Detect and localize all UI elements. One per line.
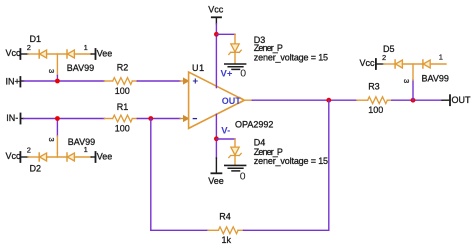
- pin arrow op-amp + input: [180, 78, 188, 83]
- port IN+: [6, 76, 24, 86]
- junction on IN+ net: [55, 79, 60, 84]
- svg-text:R2: R2: [117, 62, 129, 72]
- wire OUT net to R3: [252, 99, 357, 101]
- wire IN- net (port to R1): [24, 118, 105, 120]
- svg-text:2: 2: [27, 43, 31, 52]
- svg-text:3: 3: [47, 138, 56, 142]
- svg-text:Vcc: Vcc: [6, 151, 22, 161]
- diode D5 (BAV99 dual): [384, 60, 447, 68]
- svg-text:BAV99: BAV99: [67, 63, 94, 73]
- svg-text:U1: U1: [192, 63, 205, 73]
- resistor R2: [104, 78, 137, 85]
- svg-text:OUT: OUT: [222, 96, 242, 106]
- svg-text:100: 100: [368, 105, 383, 115]
- junction OUT/feedback: [326, 98, 331, 103]
- wire R2 to op-amp + input: [137, 80, 180, 82]
- ground 0 (under D3): [225, 64, 246, 80]
- op-amp - symbol: [193, 118, 196, 120]
- svg-text:zener_voltage = 15: zener_voltage = 15: [254, 156, 328, 166]
- svg-text:1k: 1k: [222, 235, 232, 245]
- port Vee (bottom-left row): [91, 152, 112, 163]
- svg-text:R3: R3: [368, 82, 380, 92]
- svg-text:Vee: Vee: [208, 176, 224, 186]
- svg-text:D1: D1: [30, 34, 42, 44]
- junction V+ to D3: [214, 32, 219, 37]
- svg-text:BAV99: BAV99: [68, 137, 95, 147]
- wire V+ branch to D3: [216, 33, 235, 35]
- wire feedback bottom left: [151, 229, 208, 231]
- svg-text:3: 3: [402, 79, 411, 83]
- port Vcc (top middle): [208, 5, 224, 24]
- port OUT: [442, 95, 471, 105]
- svg-text:V-: V-: [221, 125, 230, 136]
- svg-text:V+: V+: [221, 69, 233, 80]
- svg-text:D2: D2: [30, 163, 42, 173]
- wire feedback left vertical: [150, 119, 152, 231]
- svg-text:BAV99: BAV99: [422, 73, 449, 83]
- port IN-: [6, 113, 23, 124]
- wire V- branch to D4: [216, 138, 235, 140]
- svg-text:Vcc: Vcc: [208, 5, 224, 15]
- svg-text:IN-: IN-: [6, 113, 18, 123]
- svg-text:3: 3: [47, 69, 56, 73]
- svg-text:0: 0: [240, 68, 246, 80]
- svg-text:100: 100: [115, 86, 130, 96]
- wire R3 to OUT port: [392, 99, 442, 101]
- resistor R3: [357, 97, 392, 104]
- op-amp + symbol: [193, 79, 197, 83]
- port Vcc (right): [360, 58, 384, 69]
- pin arrow op-amp - input: [180, 116, 188, 121]
- junction on IN- net: [55, 116, 60, 121]
- wire IN- junction down to D2 tap: [56, 119, 58, 137]
- op-amp U1 triangle: [189, 72, 245, 128]
- wire R1 to op-amp - input: [137, 118, 180, 120]
- port Vee (top-left row): [91, 49, 112, 60]
- wire D5 tap vertical: [412, 80, 414, 100]
- svg-text:OPA2992: OPA2992: [235, 120, 273, 130]
- wire V+ net vertical: [215, 24, 217, 88]
- port Vcc (bottom-left): [6, 151, 29, 162]
- wire op-amp output lead: [244, 99, 252, 101]
- svg-text:2: 2: [382, 53, 386, 62]
- port Vee (below op-amp): [208, 158, 224, 186]
- svg-text:Vee: Vee: [97, 49, 113, 59]
- ground 0 (under D4): [225, 165, 246, 182]
- svg-text:0: 0: [240, 170, 246, 182]
- svg-text:Vcc: Vcc: [6, 48, 22, 58]
- pin arrow op-amp output: [240, 97, 245, 103]
- wire D2 tap vertical: [56, 136, 58, 153]
- resistor R1: [104, 115, 137, 122]
- wire feedback bottom right: [244, 229, 329, 231]
- junction D5 tap on OUT net: [411, 98, 416, 103]
- junction V- to D4: [214, 136, 219, 141]
- svg-text:IN+: IN+: [6, 76, 20, 86]
- zener diode D3: [229, 34, 241, 63]
- wire feedback right vertical: [328, 100, 330, 230]
- svg-text:OUT: OUT: [452, 95, 472, 105]
- port Vcc (top-left): [6, 48, 29, 59]
- svg-text:100: 100: [115, 123, 130, 133]
- svg-text:Vcc: Vcc: [360, 58, 376, 68]
- diode D1 (BAV99 dual): [28, 50, 91, 76]
- zener diode D4: [229, 139, 241, 165]
- diode D2 (BAV99 dual): [28, 153, 91, 161]
- svg-text:2: 2: [27, 145, 31, 154]
- svg-text:R4: R4: [219, 212, 231, 222]
- resistor R4: [208, 227, 244, 234]
- svg-text:1: 1: [439, 52, 443, 61]
- wire D1 tap to IN+ junction: [56, 76, 58, 82]
- svg-text:R1: R1: [117, 102, 129, 112]
- wire IN+ net (port to R2): [24, 80, 105, 82]
- svg-text:zener_voltage = 15: zener_voltage = 15: [254, 52, 328, 62]
- wire V- net vertical: [215, 114, 217, 158]
- svg-text:Vee: Vee: [97, 152, 113, 162]
- junction feedback tap on IN- net: [148, 116, 153, 121]
- svg-text:1: 1: [84, 43, 88, 52]
